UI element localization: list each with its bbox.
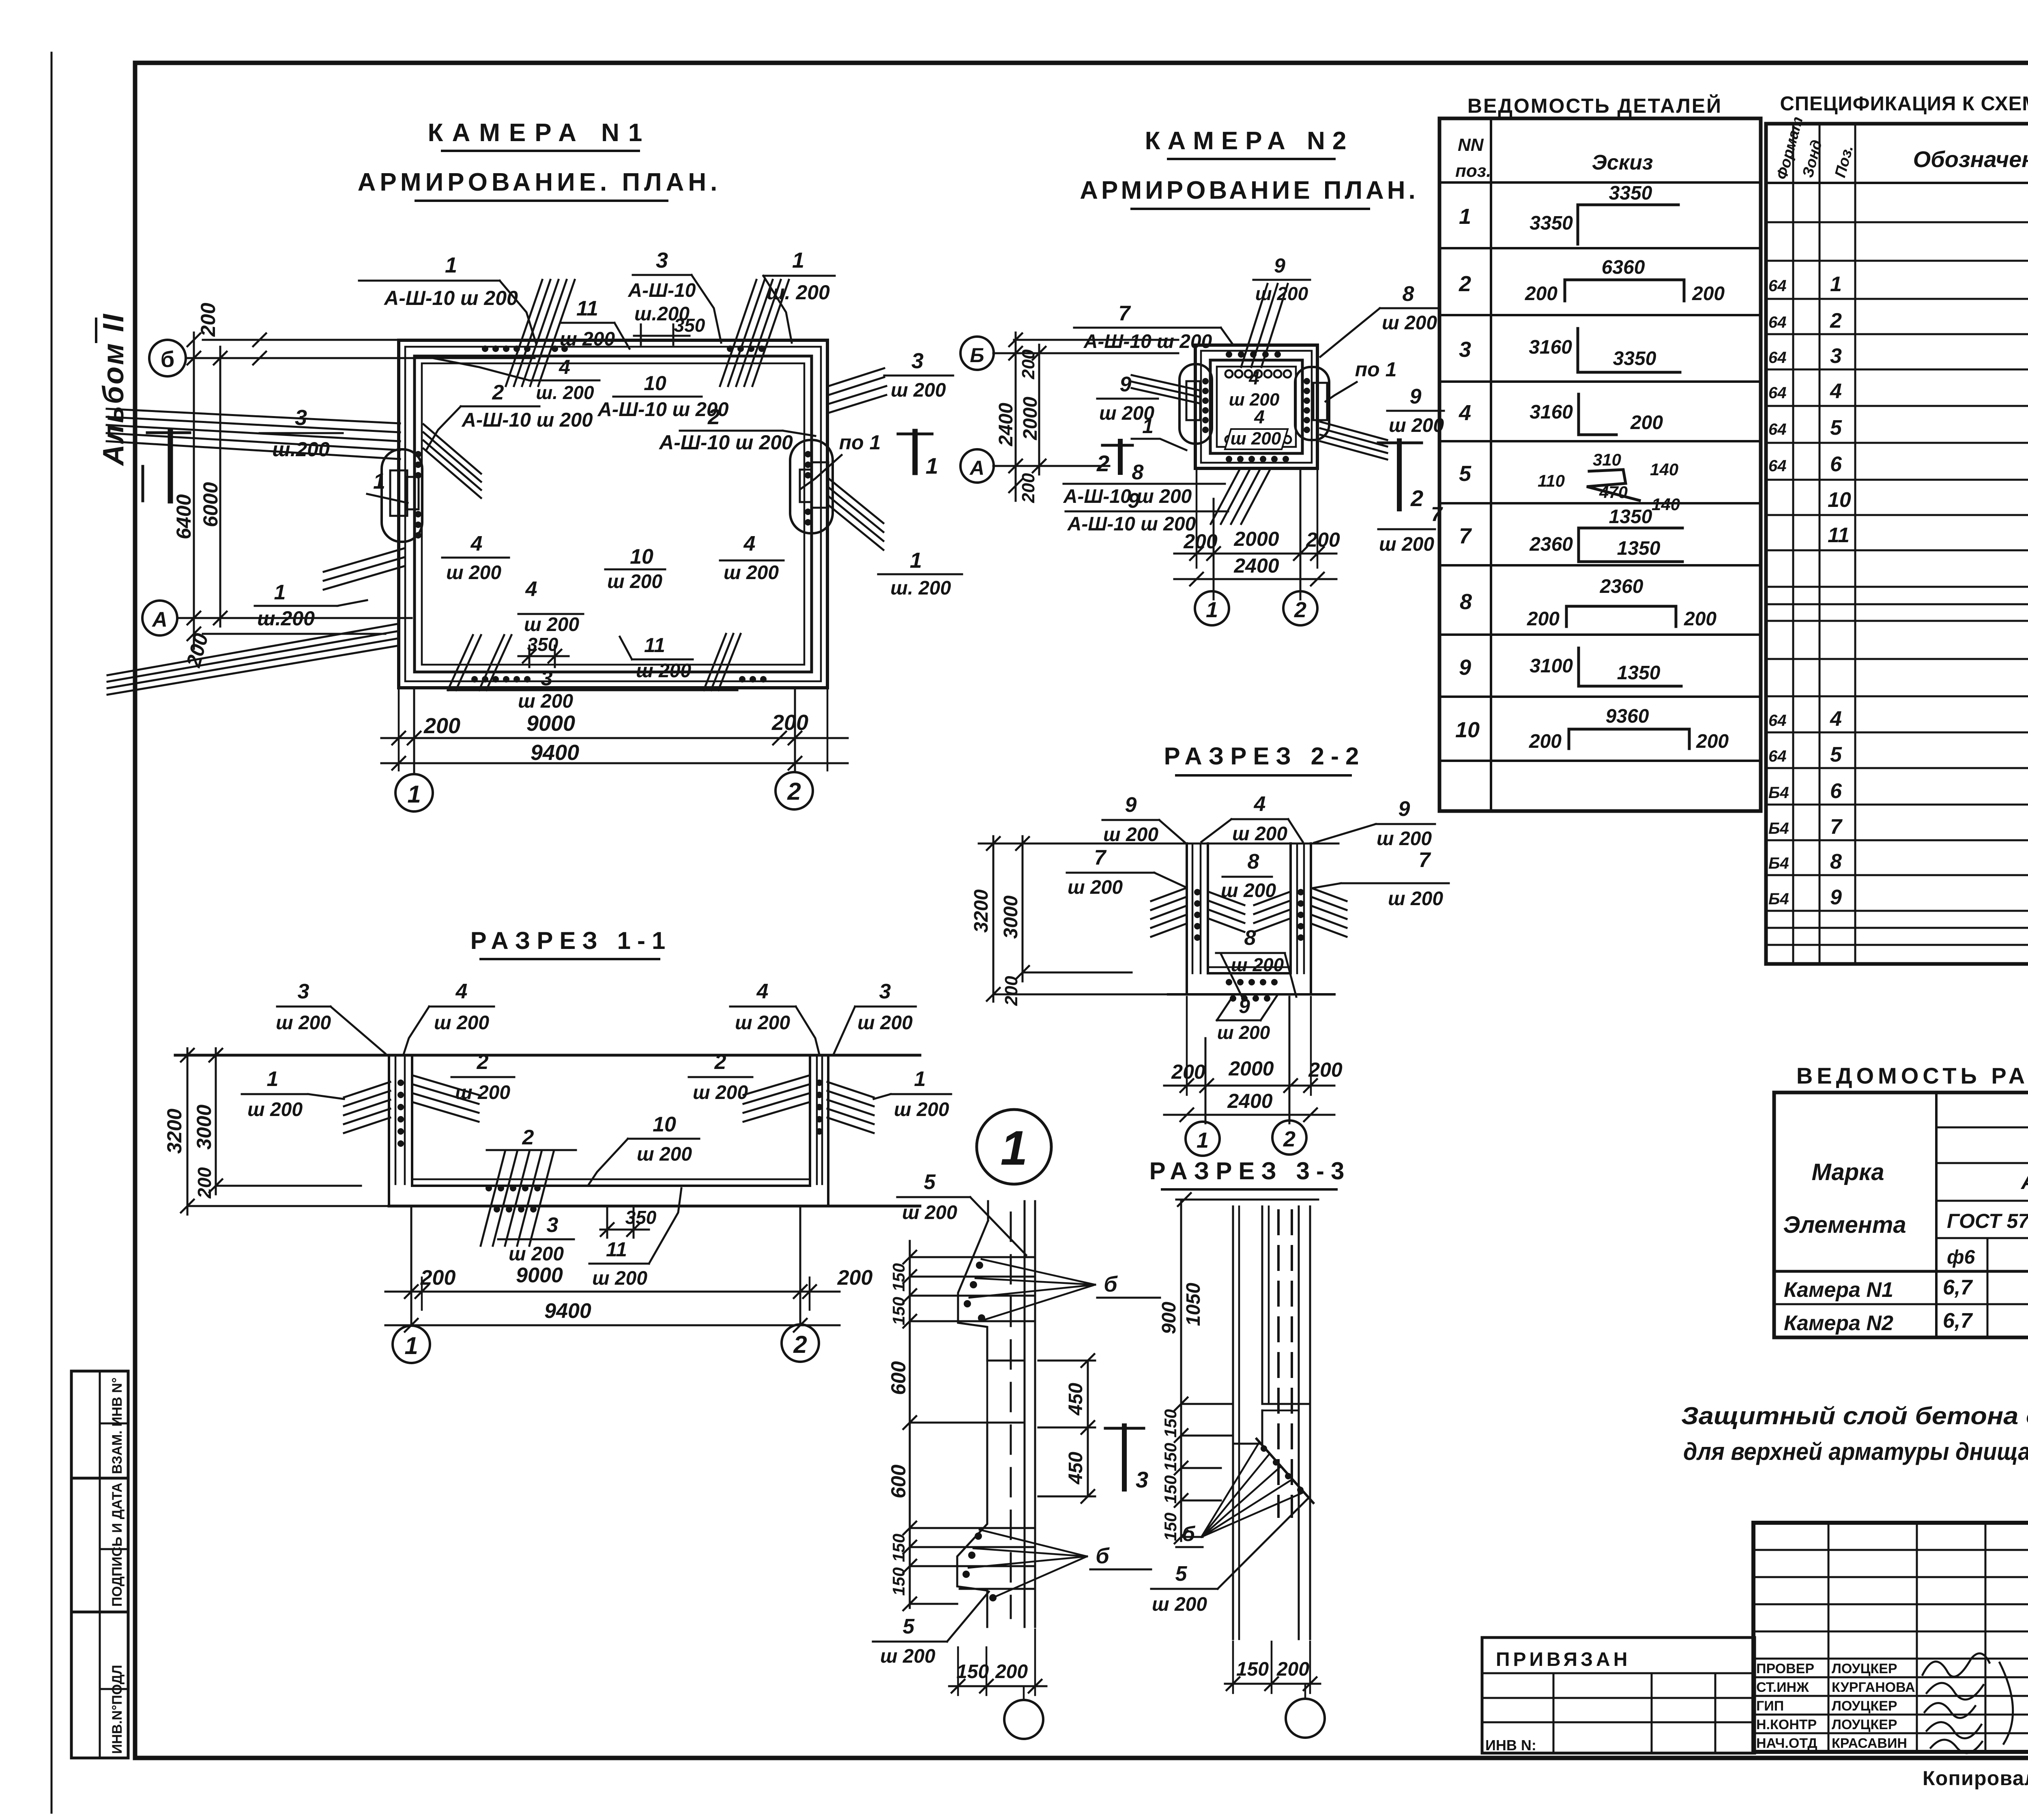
extension lines left (216, 1185, 361, 1187)
svg-text:ш 200: ш 200 (1231, 954, 1284, 975)
axis circle 2 (776, 772, 813, 809)
svg-text:б: б (1182, 1522, 1196, 1546)
svg-text:3200: 3200 (971, 889, 992, 933)
svg-text:6: 6 (1830, 779, 1842, 803)
svg-text:Эскиз: Эскиз (1592, 151, 1653, 174)
svg-text:64: 64 (1768, 712, 1787, 730)
fan bottom crossing slab (481, 1152, 554, 1246)
svg-text:2: 2 (522, 1126, 534, 1149)
ledge r33 (1262, 1403, 1310, 1405)
svg-text:1: 1 (407, 781, 421, 808)
label 11 sh200 below (589, 1188, 681, 1289)
svg-text:4: 4 (1254, 406, 1265, 427)
svg-text:2400: 2400 (1227, 1090, 1272, 1112)
label 9 sh200 right (1387, 385, 1444, 436)
svg-text:64: 64 (1768, 747, 1787, 765)
svg-text:ПРИВЯЗАН: ПРИВЯЗАН (1496, 1649, 1631, 1670)
svg-text:150: 150 (1161, 1443, 1180, 1471)
right embed oval (790, 440, 833, 533)
svg-text:СПЕЦИФИКАЦИЯ К СХЕМАМ РАСПОЛОЖ: СПЕЦИФИКАЦИЯ К СХЕМАМ РАСПОЛОЖЕНИЯ АРМАТ… (1780, 92, 2028, 115)
svg-text:600: 600 (887, 1361, 910, 1395)
svg-text:ш 200: ш 200 (560, 328, 615, 350)
top notch profile (958, 1221, 988, 1361)
poz numbers (1455, 204, 1480, 742)
svg-text:3000: 3000 (1000, 895, 1022, 939)
axis extension 2 (794, 688, 796, 772)
svg-text:9000: 9000 (516, 1264, 563, 1287)
svg-text:ЛОУЦКЕР: ЛОУЦКЕР (1832, 1717, 1897, 1732)
svg-text:б: б (1096, 1544, 1110, 1568)
svg-text:1350: 1350 (1617, 538, 1661, 559)
vedomost column line (1490, 118, 1492, 811)
bottom circle r33 (1286, 1699, 1325, 1738)
axis circle B2 (960, 337, 994, 370)
svg-text:РАЗРЕЗ 3-3: РАЗРЕЗ 3-3 (1149, 1157, 1351, 1185)
axis circle B (149, 340, 186, 376)
svg-text:9360: 9360 (1606, 706, 1649, 727)
svg-text:9400: 9400 (544, 1299, 591, 1323)
fan right outside upper (829, 368, 886, 413)
svg-text:5: 5 (1830, 743, 1842, 766)
svg-text:ш 200: ш 200 (891, 380, 946, 401)
svg-text:ЛОУЦКЕР: ЛОУЦКЕР (1832, 1661, 1897, 1676)
svg-text:Камера N2: Камера N2 (1784, 1311, 1893, 1335)
svg-text:11: 11 (644, 634, 665, 657)
label 4 sh200 bottom right (720, 532, 784, 584)
svg-text:ИНВ N:: ИНВ N: (1485, 1737, 1536, 1753)
concrete block bottom edge (987, 1422, 1025, 1424)
sketch 10 (1529, 706, 1729, 752)
svg-text:8: 8 (1460, 590, 1472, 614)
label 1 sh.200 left A axis (255, 581, 367, 630)
svg-text:2: 2 (1283, 1127, 1295, 1151)
svg-text:ш. 200: ш. 200 (767, 281, 830, 304)
svg-text:200: 200 (1018, 473, 1038, 503)
label 2 sh200 left inner (451, 1050, 514, 1103)
svg-text:NN: NN (1458, 135, 1484, 155)
label 7 sh200 L r22 (1067, 846, 1186, 898)
sketch 4 (1530, 394, 1663, 435)
sketch 5 (1538, 450, 1680, 514)
label 4 sh200 inside bottom (1225, 406, 1288, 449)
svg-text:4: 4 (470, 532, 483, 556)
label 4 sh200 bottom left inside (442, 532, 509, 584)
svg-text:10: 10 (644, 372, 666, 395)
svg-text:200: 200 (1529, 731, 1562, 752)
svg-text:2: 2 (787, 778, 801, 805)
rebar dots left wall (415, 451, 421, 539)
hatch leaders r33 (1201, 1442, 1304, 1537)
svg-text:ш 200: ш 200 (1217, 1022, 1270, 1043)
svg-text:3000: 3000 (193, 1105, 215, 1150)
svg-text:А-Ш-10 ш 200: А-Ш-10 ш 200 (1067, 513, 1196, 535)
svg-text:КАМЕРА N1: КАМЕРА N1 (428, 119, 651, 147)
axis line A (177, 617, 412, 619)
dots r22 floor (1226, 979, 1278, 1002)
svg-text:11: 11 (576, 297, 598, 320)
svg-text:1: 1 (914, 1067, 926, 1091)
bottom dim line 9000 (381, 737, 848, 739)
svg-text:200: 200 (771, 710, 808, 735)
svg-text:4: 4 (1830, 707, 1842, 731)
svg-text:200: 200 (1696, 731, 1729, 752)
label 4 sh200 top left (404, 980, 494, 1054)
right wall r22 (1291, 843, 1311, 994)
svg-text:350: 350 (674, 315, 705, 336)
svg-text:1: 1 (910, 548, 922, 573)
axis line B2 (993, 352, 1178, 354)
steel data rows (1784, 1272, 2028, 1335)
sketch 2 (1525, 257, 1725, 305)
dim vertical 2400 (1015, 333, 1017, 501)
svg-text:5: 5 (1459, 461, 1472, 486)
axis extension 1 (413, 688, 415, 774)
svg-text:9: 9 (1128, 489, 1140, 513)
label po 1 (801, 431, 881, 489)
section mark 1 left (143, 431, 190, 501)
svg-text:Камера N1: Камера N1 (1784, 1278, 1893, 1302)
label 4 sh200 top right (730, 980, 819, 1054)
bottom circle detail1 (1004, 1700, 1043, 1739)
slab bottom r22 (1168, 993, 1334, 996)
top surface line (979, 843, 1338, 845)
svg-text:ш 200: ш 200 (724, 562, 779, 584)
svg-text:СТ.ИНЖ: СТ.ИНЖ (1756, 1680, 1809, 1695)
svg-text:3350: 3350 (1609, 182, 1652, 204)
right wall lines (810, 1055, 828, 1206)
svg-text:4: 4 (1254, 792, 1266, 816)
svg-text:4: 4 (743, 532, 756, 556)
label 2 sh200 right inner (689, 1050, 752, 1103)
svg-text:200: 200 (837, 1266, 873, 1290)
svg-text:64: 64 (1768, 457, 1787, 475)
svg-text:3200: 3200 (163, 1109, 186, 1154)
svg-text:ш 200: ш 200 (636, 660, 691, 682)
diagonal bar r33 (1257, 1439, 1313, 1503)
floor lines (412, 1178, 810, 1180)
svg-text:А: А (151, 608, 168, 631)
svg-text:2: 2 (492, 381, 504, 404)
svg-text:3: 3 (298, 980, 309, 1003)
svg-text:3: 3 (295, 406, 307, 430)
dim chain left r33 (1180, 1200, 1182, 1541)
svg-text:200: 200 (1276, 1659, 1309, 1680)
svg-text:3: 3 (1830, 344, 1842, 368)
dashed bars r33 (1278, 1210, 1292, 1517)
rebar dots bottom wall (471, 676, 767, 682)
label 8 sh200 C r22 (1221, 850, 1276, 901)
svg-text:7: 7 (1459, 524, 1472, 548)
svg-text:1: 1 (1001, 1121, 1028, 1175)
svg-text:ш 200: ш 200 (1382, 312, 1437, 334)
svg-text:200: 200 (1630, 412, 1663, 434)
svg-text:ш 200: ш 200 (446, 562, 501, 584)
svg-text:2360: 2360 (1600, 576, 1643, 597)
svg-text:ф6: ф6 (1947, 1247, 1975, 1268)
svg-text:5: 5 (903, 1615, 915, 1638)
svg-text:3160: 3160 (1529, 337, 1572, 358)
signature grid rows (1753, 1550, 2028, 1733)
svg-text:200: 200 (420, 1266, 456, 1290)
svg-text:2: 2 (1459, 272, 1471, 296)
fan right wall outside (827, 1082, 874, 1133)
svg-text:ш 200: ш 200 (693, 1082, 748, 1103)
svg-text:2400: 2400 (1233, 554, 1279, 577)
svg-text:470: 470 (1599, 483, 1628, 502)
svg-text:200: 200 (1527, 608, 1560, 630)
svg-text:450: 450 (1065, 1452, 1087, 1485)
axis extensions N2 (1196, 468, 1198, 568)
svg-text:ш 200: ш 200 (1103, 824, 1158, 846)
svg-text:6: 6 (1830, 453, 1842, 476)
dim 350 below slab (600, 1207, 657, 1238)
label 7 sh200 R r22 (1313, 848, 1449, 910)
svg-text:2: 2 (1830, 309, 1842, 333)
fan below N2 (1211, 470, 1270, 524)
svg-text:10: 10 (1455, 718, 1480, 742)
axis circle 2 N2 (1283, 591, 1317, 625)
right bar r33 (1298, 1206, 1300, 1639)
svg-text:150: 150 (1236, 1659, 1269, 1680)
svg-text:ш 200: ш 200 (518, 691, 573, 712)
fan top-right (720, 280, 789, 386)
label 9 sh200 upper mid (1253, 254, 1310, 304)
svg-text:Зонд: Зонд (1799, 138, 1826, 180)
rebar dots right wall (805, 451, 811, 526)
label 11 sh200 (560, 297, 629, 350)
bottom dims detail1 (949, 1685, 1046, 1687)
wall outer outline N2 (1195, 345, 1317, 468)
svg-text:А-Ш-10: А-Ш-10 (627, 280, 696, 301)
svg-text:ш 200: ш 200 (455, 1082, 510, 1103)
svg-text:1: 1 (926, 453, 938, 479)
svg-text:5: 5 (924, 1170, 936, 1194)
spec outer box (1766, 124, 2028, 964)
fan bottom-left outside (107, 624, 399, 695)
svg-text:ш 200: ш 200 (857, 1012, 913, 1034)
svg-text:1: 1 (1142, 415, 1154, 438)
svg-text:2: 2 (793, 1331, 807, 1358)
label 350 bottom with ticks (518, 634, 569, 667)
svg-text:1: 1 (792, 248, 804, 273)
middle pair r33 (1261, 1206, 1263, 1404)
svg-text:110: 110 (1538, 471, 1565, 490)
fan right N2 (1320, 422, 1387, 459)
svg-text:1050: 1050 (1183, 1283, 1204, 1326)
svg-text:200: 200 (1183, 530, 1218, 553)
fan left short above A axis (324, 548, 404, 590)
svg-text:2000: 2000 (1233, 528, 1279, 550)
svg-text:4: 4 (1459, 401, 1471, 425)
svg-text:Б4: Б4 (1768, 854, 1789, 872)
svg-text:1350: 1350 (1617, 662, 1661, 684)
svg-text:6000: 6000 (199, 482, 222, 527)
svg-text:1: 1 (267, 1067, 279, 1091)
svg-text:РАЗРЕЗ 2-2: РАЗРЕЗ 2-2 (1164, 743, 1366, 770)
extensions to circles r22 (1186, 997, 1188, 1095)
wall dots left (397, 1080, 404, 1147)
svg-text:7: 7 (1419, 848, 1431, 872)
svg-text:Обозначение: Обозначение (1913, 146, 2028, 172)
section mark T2 right (1378, 441, 1443, 526)
svg-text:3: 3 (541, 667, 553, 690)
right embed oval N2 (1295, 367, 1329, 440)
svg-text:5: 5 (1175, 1562, 1188, 1586)
fan into N2 top-left (1132, 375, 1199, 403)
label 3 sh200 right gap (884, 349, 953, 401)
svg-text:200: 200 (1684, 608, 1716, 630)
svg-text:10: 10 (1828, 488, 1851, 512)
svg-text:3: 3 (1459, 337, 1471, 362)
svg-text:Марка: Марка (1811, 1159, 1884, 1185)
concrete block top edge (987, 1360, 1025, 1362)
svg-text:4: 4 (1830, 380, 1842, 403)
label 4 sh200 inside top (1229, 367, 1280, 410)
svg-text:4: 4 (1248, 367, 1259, 388)
svg-text:НАЧ.ОТД: НАЧ.ОТД (1756, 1736, 1817, 1751)
label 1 sh200 left (242, 1067, 344, 1120)
svg-text:ВЕДОМОСТЬ РАСХОДА СТАЛИ, КГ: ВЕДОМОСТЬ РАСХОДА СТАЛИ, КГ (1796, 1063, 2028, 1088)
spec rows N1 (1768, 272, 2028, 584)
fan right outside lower (829, 479, 883, 550)
ticks N2 left (1009, 333, 1046, 492)
svg-text:Копировал: Коршунова 22184-02: Копировал: Коршунова 22184-02 33 Формат:… (1923, 1767, 2028, 1790)
svg-text:4: 4 (455, 980, 468, 1003)
svg-text:200: 200 (1171, 1060, 1205, 1083)
label 3 sh200 bottom (518, 667, 573, 712)
left wall r22 (1187, 843, 1208, 994)
svg-text:9000: 9000 (526, 711, 575, 736)
svg-text:7: 7 (1119, 302, 1131, 325)
svg-text:3160: 3160 (1530, 401, 1573, 423)
label 8 sh200 C2 r22 (1216, 926, 1296, 997)
svg-text:ш 200: ш 200 (1389, 415, 1444, 436)
svg-text:ш 200: ш 200 (637, 1144, 692, 1165)
top offset line (203, 339, 535, 341)
sketch 1 (1530, 182, 1678, 244)
axis circle 1 r22 (1186, 1122, 1220, 1156)
svg-text:ш 200: ш 200 (1388, 888, 1443, 910)
left rail upper detail1 (987, 1201, 989, 1221)
top dim line r33 (1176, 1199, 1318, 1201)
svg-text:9: 9 (1125, 793, 1137, 817)
svg-text:200: 200 (995, 1661, 1028, 1683)
axis circle 2 r22 (1272, 1120, 1306, 1155)
svg-text:1: 1 (373, 469, 385, 494)
fan bottom middle crossing slab (448, 634, 741, 690)
svg-text:по 1: по 1 (839, 431, 881, 454)
svg-text:64: 64 (1768, 421, 1787, 438)
dashed centerline detail1 (1010, 1213, 1012, 1618)
svg-text:ш 200: ш 200 (524, 614, 579, 635)
album label rotated (96, 313, 130, 466)
svg-text:2400: 2400 (995, 403, 1017, 446)
svg-text:200: 200 (197, 303, 219, 337)
svg-text:1: 1 (274, 581, 286, 604)
bottom dim line 2400 (1174, 578, 1336, 580)
label 2 above bottom fan (487, 1126, 576, 1150)
fans r22 left inside (1209, 892, 1244, 932)
axis circle 2 r11 (782, 1324, 819, 1362)
svg-text:9400: 9400 (531, 740, 579, 765)
label 5 sh200 bottom detail1 (873, 1592, 989, 1667)
svg-text:2: 2 (707, 405, 720, 429)
svg-text:ш. 200: ш. 200 (536, 382, 594, 403)
svg-text:8: 8 (1403, 282, 1414, 306)
svg-text:8: 8 (1830, 850, 1842, 874)
dim verticals r22 (993, 836, 995, 1002)
dots detail1 (962, 1262, 997, 1601)
ticks razrez11 (181, 1049, 222, 1213)
svg-text:ш 200: ш 200 (1152, 1594, 1207, 1615)
svg-text:ВЗАМ. ИНВ N°: ВЗАМ. ИНВ N° (110, 1378, 125, 1474)
svg-text:6400: 6400 (172, 494, 195, 539)
floor r22 (1208, 966, 1291, 968)
signature grid verticals (1828, 1523, 2028, 1752)
label 9 sh200 left (1097, 373, 1158, 424)
wall outer liner (1201, 351, 1312, 463)
svg-text:1: 1 (1197, 1128, 1209, 1153)
label 1 sh200 top far right (763, 248, 835, 343)
sketch 8 (1527, 576, 1716, 630)
spec rows N2 (1768, 706, 2028, 909)
svg-text:Б: Б (970, 344, 984, 367)
section mark 3 detail1 (1105, 1426, 1148, 1492)
svg-text:9: 9 (1830, 886, 1842, 909)
fan left wall outside (344, 1082, 390, 1133)
wall inner liner (422, 363, 804, 665)
svg-text:Б4: Б4 (1768, 820, 1789, 837)
label 3 sh200 top right (834, 980, 916, 1054)
svg-text:4: 4 (559, 356, 570, 378)
svg-text:3: 3 (879, 980, 891, 1003)
svg-text:350: 350 (625, 1207, 657, 1228)
left rail mid detail1 (986, 1361, 988, 1423)
svg-text:1: 1 (445, 253, 457, 277)
svg-text:2360: 2360 (1529, 534, 1573, 555)
left wall lines r33 (1232, 1206, 1234, 1639)
svg-text:8: 8 (1132, 461, 1144, 484)
svg-text:А-Ш-10 ш 200: А-Ш-10 ш 200 (461, 409, 593, 431)
svg-text:2: 2 (477, 1050, 489, 1074)
steel horizontals (1774, 1127, 2028, 1304)
left embed oval N2 (1179, 364, 1212, 444)
svg-text:А-Ш-10 ш 200: А-Ш-10 ш 200 (383, 287, 518, 309)
label 9 A-III-10 sh200 bottom (1066, 489, 1228, 535)
inner rebar circles top (1225, 370, 1291, 378)
svg-text:9: 9 (1239, 995, 1250, 1017)
svg-text:ш 200: ш 200 (1379, 534, 1434, 555)
wall inner liner (1217, 367, 1296, 447)
svg-text:ш 200: ш 200 (509, 1243, 564, 1265)
svg-text:9: 9 (1410, 385, 1422, 408)
svg-text:ш 200: ш 200 (1231, 429, 1281, 449)
svg-text:3: 3 (1136, 1467, 1148, 1492)
label po1 N2 (1326, 358, 1396, 401)
fan N2 top crossing (from 9 label upper) (1241, 284, 1288, 367)
svg-text:150: 150 (889, 1567, 908, 1596)
svg-text:9: 9 (1120, 373, 1132, 396)
label 2 A-III-10 sh200 right inner (658, 405, 815, 454)
signature names (1756, 1661, 1915, 1751)
fan top-left (506, 280, 575, 386)
dots r22 walls (1194, 889, 1304, 941)
svg-text:11: 11 (1828, 524, 1850, 547)
dim vertical 6000 (219, 347, 221, 627)
svg-text:2: 2 (1096, 451, 1109, 476)
b leaders bottom detail1 (969, 1530, 1087, 1597)
fan left wall inside (413, 1075, 479, 1122)
